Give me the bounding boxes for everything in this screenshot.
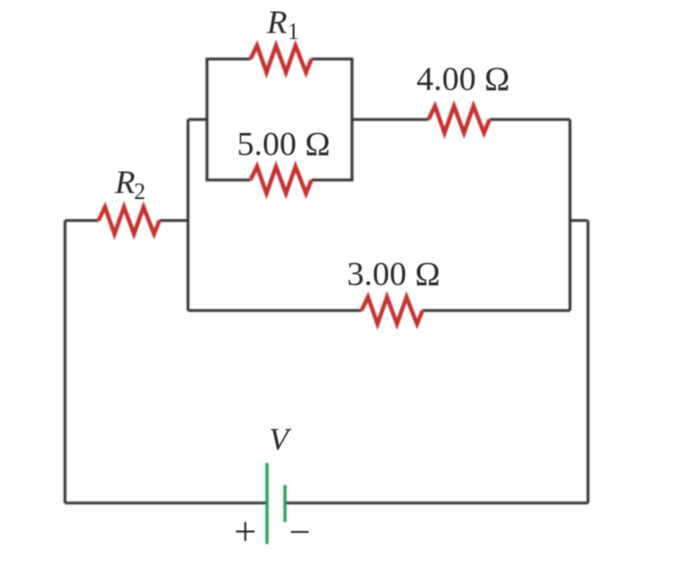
wire: middle run before 3-ohm resistor	[188, 309, 362, 312]
wire: bottom right run from battery	[285, 502, 588, 505]
svg-text:R: R	[266, 5, 287, 41]
svg-text:4.00 Ω: 4.00 Ω	[417, 61, 510, 98]
wire: middle run after 3-ohm resistor	[423, 309, 571, 312]
wire: parallel box left side bottom	[207, 120, 251, 181]
svg-text:3.00 Ω: 3.00 Ω	[347, 256, 440, 293]
wire: left outer vertical	[64, 221, 67, 504]
resistor 4.00 ohm	[429, 106, 490, 133]
svg-text:2: 2	[134, 179, 146, 204]
resistor R1	[251, 46, 312, 73]
wire: top-right run to 4-ohm resistor	[352, 118, 429, 121]
wire: right inner vertical	[569, 120, 572, 311]
resistor R2	[99, 207, 160, 234]
wire: parallel box right side bottom	[312, 120, 353, 181]
wire: left run before R2	[65, 219, 99, 222]
wire: right outer vertical	[587, 221, 590, 504]
svg-text:−: −	[289, 512, 310, 554]
resistor 5.00 ohm	[251, 167, 312, 194]
wire: right stub to outer loop	[570, 219, 588, 222]
wire: stub from node into parallel box	[188, 118, 207, 121]
svg-text:1: 1	[288, 19, 300, 44]
battery V positive plate	[265, 463, 268, 544]
wire: left run after R2	[160, 219, 189, 222]
wire: left inner vertical	[187, 120, 190, 311]
svg-text:+: +	[234, 509, 257, 554]
battery V negative plate	[283, 485, 286, 522]
svg-text:R: R	[114, 165, 135, 201]
resistor 3.00 ohm	[362, 297, 423, 324]
wire: bottom left run to battery	[65, 502, 267, 505]
svg-text:V: V	[269, 421, 292, 457]
wire: parallel box left side	[207, 59, 251, 120]
wire: parallel box right side top	[312, 59, 353, 120]
svg-text:5.00 Ω: 5.00 Ω	[237, 126, 330, 163]
wire: after 4-ohm resistor	[490, 118, 571, 121]
